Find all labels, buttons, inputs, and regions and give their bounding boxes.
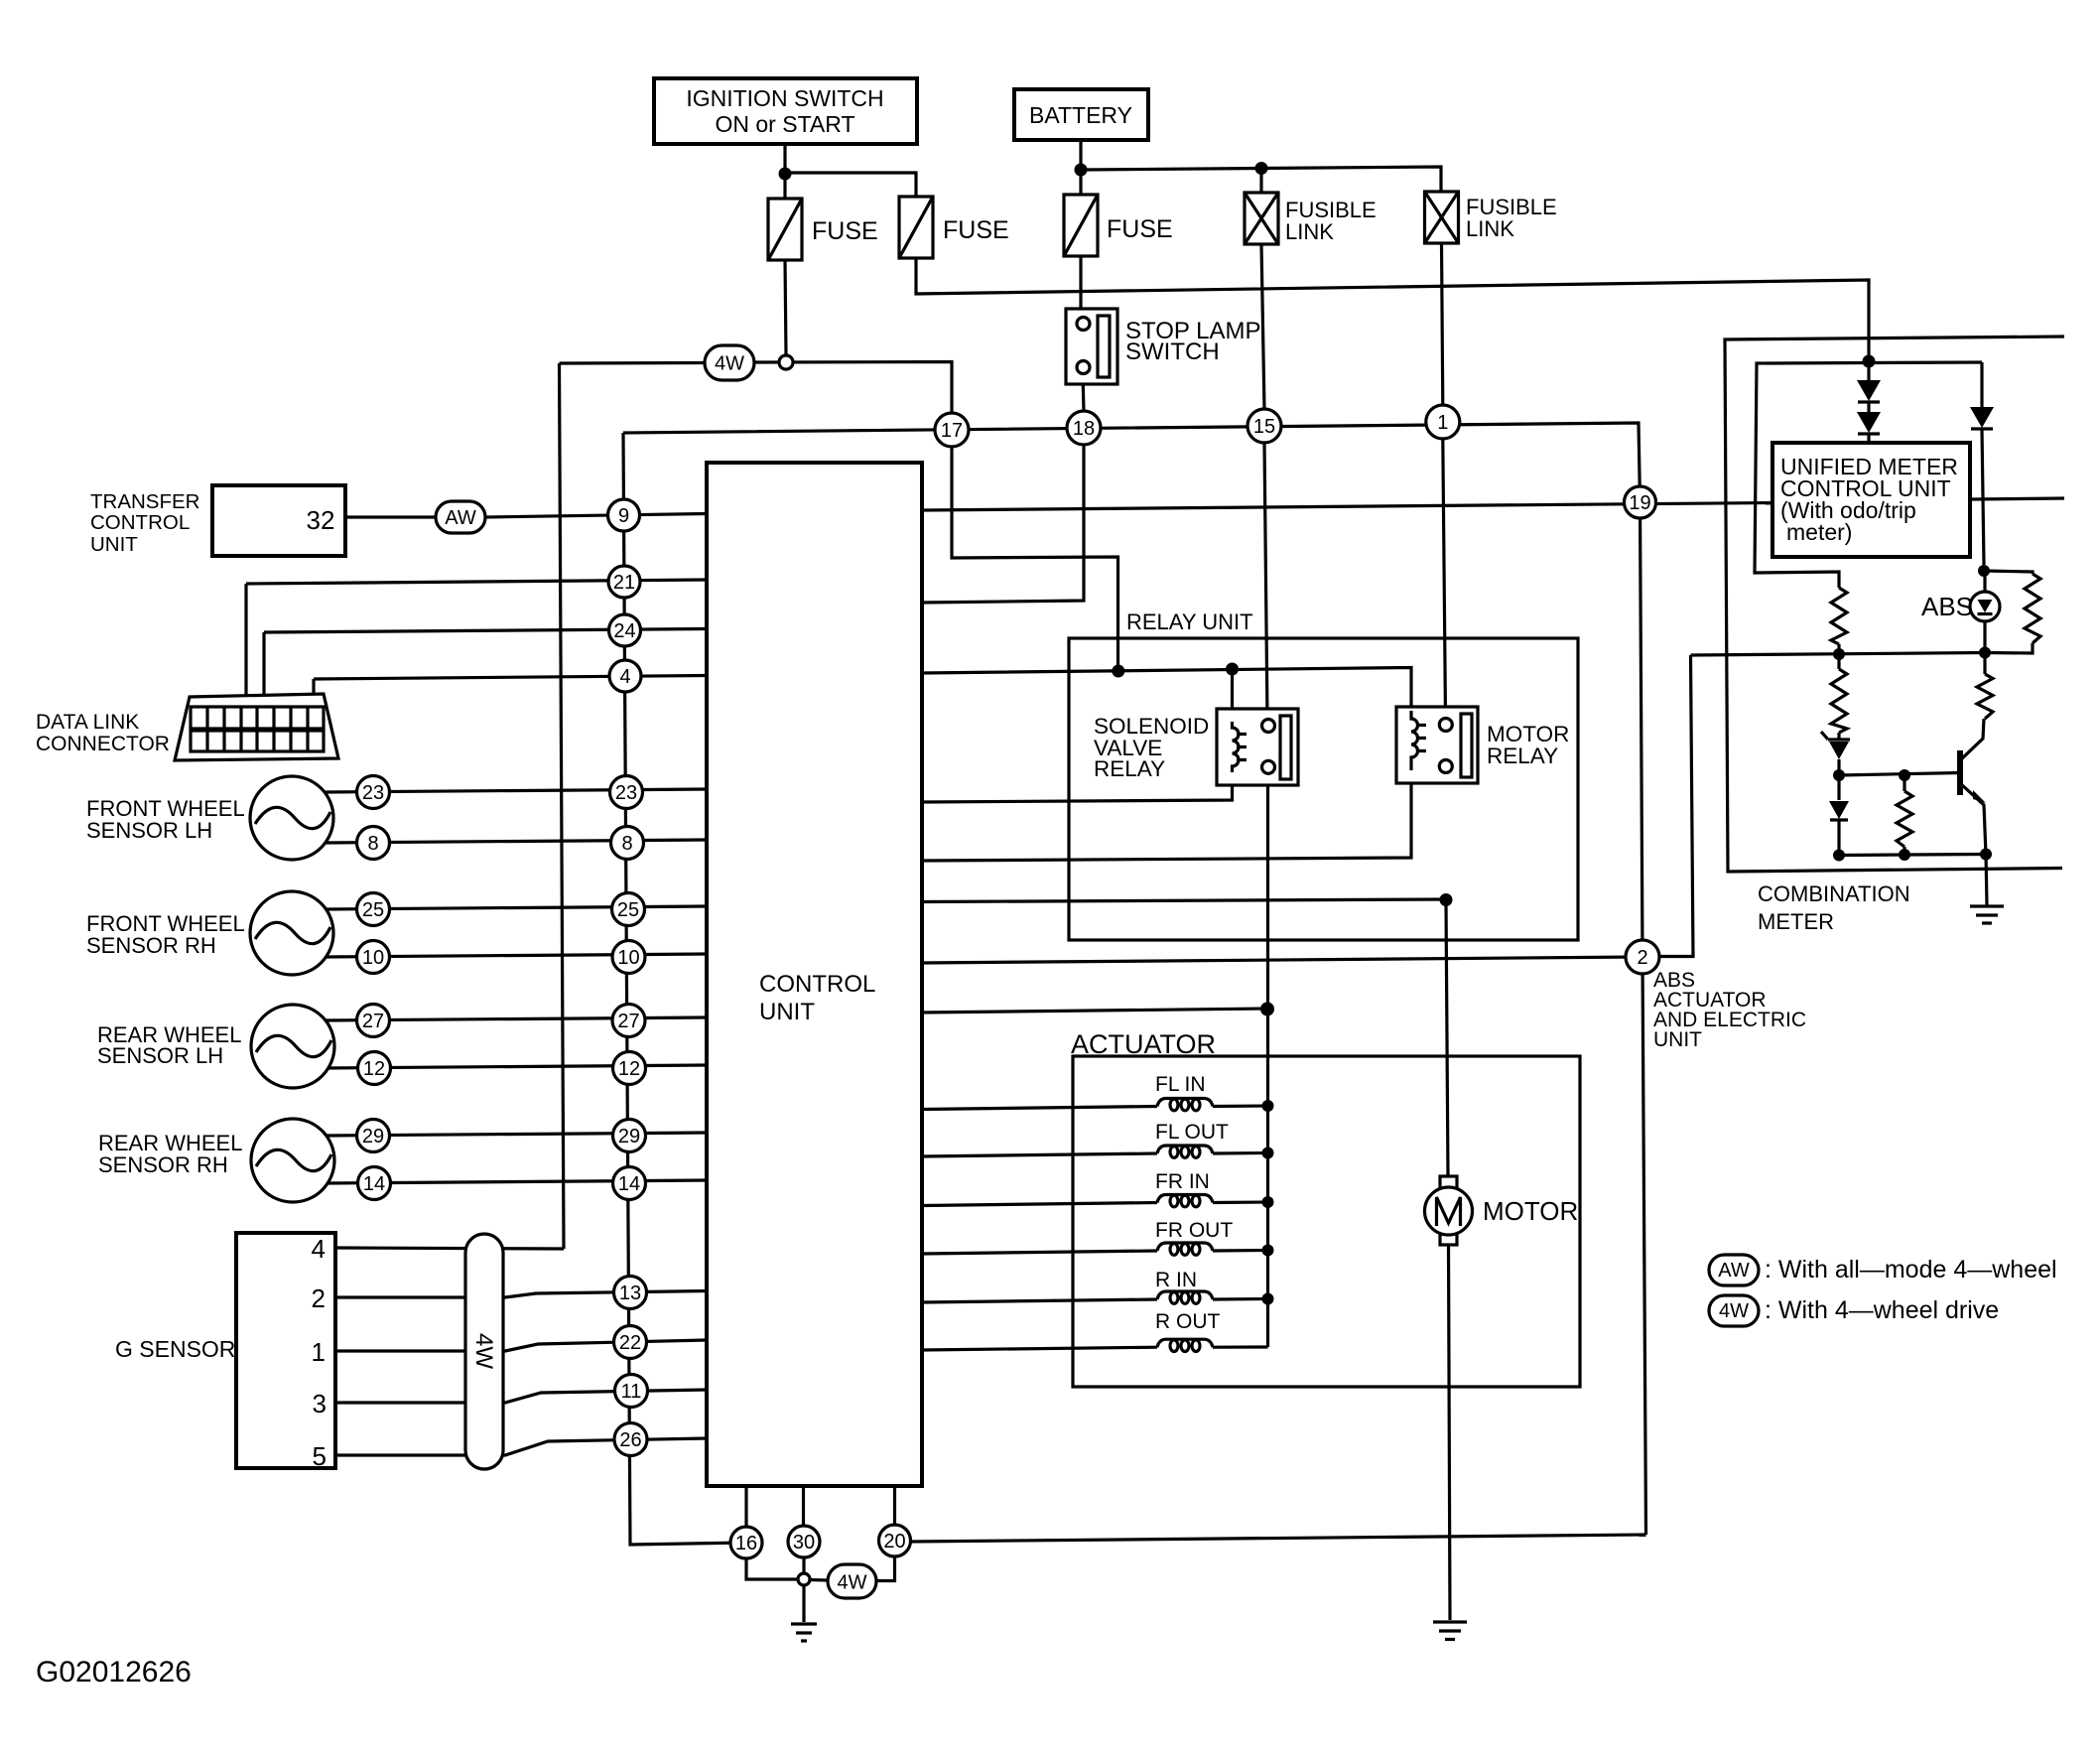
svg-text:25: 25 <box>362 899 384 921</box>
svg-text:23: 23 <box>362 782 384 804</box>
svg-text:: With all—mode 4—wheel: : With all—mode 4—wheel <box>1765 1256 2057 1283</box>
svg-text:AW: AW <box>1718 1260 1750 1282</box>
svg-text:LINK: LINK <box>1285 219 1334 244</box>
svg-text:10: 10 <box>617 947 639 969</box>
svg-text:29: 29 <box>618 1126 640 1148</box>
svg-text:SENSOR RH: SENSOR RH <box>98 1152 228 1177</box>
svg-text:29: 29 <box>362 1126 384 1148</box>
svg-text:R IN: R IN <box>1155 1269 1197 1291</box>
svg-text:22: 22 <box>619 1332 641 1354</box>
svg-text:ON or START: ON or START <box>716 111 855 137</box>
svg-text:32: 32 <box>307 505 335 535</box>
svg-text:FUSE: FUSE <box>812 217 878 245</box>
svg-text:LINK: LINK <box>1466 216 1514 241</box>
svg-text:4: 4 <box>619 666 630 688</box>
svg-text:17: 17 <box>941 420 963 442</box>
svg-text:UNIT: UNIT <box>90 533 138 556</box>
svg-text:19: 19 <box>1629 492 1650 514</box>
svg-text:FL OUT: FL OUT <box>1155 1121 1229 1144</box>
svg-text:G SENSOR: G SENSOR <box>115 1336 235 1362</box>
svg-text:1: 1 <box>312 1337 326 1367</box>
svg-text:14: 14 <box>363 1173 385 1195</box>
svg-text:20: 20 <box>883 1531 905 1553</box>
svg-text:8: 8 <box>367 833 378 855</box>
svg-text:UNIT: UNIT <box>759 999 815 1025</box>
svg-text:IGNITION SWITCH: IGNITION SWITCH <box>686 85 883 111</box>
svg-text:4W: 4W <box>715 353 744 375</box>
svg-text:RELAY UNIT: RELAY UNIT <box>1126 609 1253 634</box>
svg-text:13: 13 <box>619 1283 641 1304</box>
svg-text:METER: METER <box>1758 909 1834 934</box>
svg-text:12: 12 <box>618 1058 640 1080</box>
svg-text:15: 15 <box>1253 416 1275 438</box>
svg-text:30: 30 <box>793 1532 815 1553</box>
svg-text:1: 1 <box>1437 412 1448 434</box>
svg-text:4W: 4W <box>1719 1300 1749 1322</box>
svg-text:3: 3 <box>313 1389 327 1418</box>
svg-text:ACTUATOR: ACTUATOR <box>1071 1029 1216 1059</box>
svg-text:24: 24 <box>613 620 635 642</box>
svg-text:FUSE: FUSE <box>943 216 1009 244</box>
svg-text:FL IN: FL IN <box>1155 1073 1206 1096</box>
svg-text:TRANSFER: TRANSFER <box>90 490 199 513</box>
svg-text:26: 26 <box>619 1429 641 1451</box>
svg-text:23: 23 <box>615 782 637 804</box>
svg-text:RELAY: RELAY <box>1487 743 1558 768</box>
svg-text:4W: 4W <box>838 1572 867 1594</box>
svg-text:FR IN: FR IN <box>1155 1170 1210 1193</box>
svg-text:meter): meter) <box>1786 519 1852 545</box>
svg-text:2: 2 <box>1637 947 1647 969</box>
svg-text:RELAY: RELAY <box>1094 756 1165 781</box>
svg-text:12: 12 <box>363 1058 385 1080</box>
svg-text:R OUT: R OUT <box>1155 1310 1221 1333</box>
svg-text:SENSOR LH: SENSOR LH <box>97 1043 223 1068</box>
svg-text:UNIT: UNIT <box>1653 1028 1702 1051</box>
svg-text:CONTROL: CONTROL <box>759 971 875 998</box>
svg-text:CONTROL: CONTROL <box>90 511 190 534</box>
svg-text:ABS: ABS <box>1921 592 1973 621</box>
svg-text:BATTERY: BATTERY <box>1029 102 1132 128</box>
svg-text:11: 11 <box>621 1381 642 1403</box>
svg-text:G02012626: G02012626 <box>36 1656 192 1688</box>
svg-text:9: 9 <box>618 505 629 527</box>
svg-text:SENSOR RH: SENSOR RH <box>86 933 216 958</box>
svg-text:CONNECTOR: CONNECTOR <box>36 733 170 755</box>
svg-text:FR OUT: FR OUT <box>1155 1219 1233 1242</box>
svg-text:SENSOR LH: SENSOR LH <box>86 818 212 843</box>
svg-text:DATA LINK: DATA LINK <box>36 711 139 734</box>
svg-text:COMBINATION: COMBINATION <box>1758 881 1910 906</box>
svg-text:4: 4 <box>312 1234 326 1264</box>
svg-text:: With 4—wheel drive: : With 4—wheel drive <box>1765 1296 1999 1324</box>
svg-text:FUSE: FUSE <box>1107 215 1173 243</box>
svg-text:5: 5 <box>313 1441 327 1471</box>
svg-text:AW: AW <box>445 507 476 529</box>
svg-text:14: 14 <box>618 1173 640 1195</box>
svg-text:MOTOR: MOTOR <box>1483 1196 1578 1226</box>
svg-text:25: 25 <box>617 899 639 921</box>
svg-text:SWITCH: SWITCH <box>1125 338 1220 365</box>
svg-text:2: 2 <box>312 1283 326 1313</box>
svg-text:27: 27 <box>362 1011 384 1032</box>
svg-text:18: 18 <box>1073 418 1095 440</box>
svg-text:4W: 4W <box>470 1333 497 1369</box>
svg-text:27: 27 <box>617 1011 639 1032</box>
svg-text:21: 21 <box>613 572 635 594</box>
svg-text:16: 16 <box>735 1533 757 1554</box>
svg-text:10: 10 <box>362 947 384 969</box>
svg-text:8: 8 <box>621 833 632 855</box>
